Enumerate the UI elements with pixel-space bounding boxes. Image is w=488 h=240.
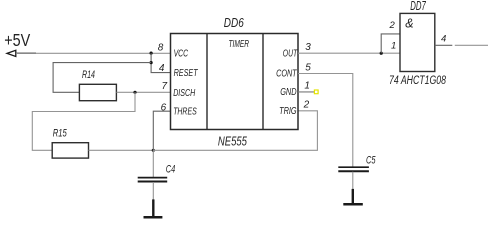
- svg-text:DD7: DD7: [410, 0, 426, 13]
- wire C4 bottom to ground: [152, 182, 154, 200]
- wire DISCH node down-left to R15 left: [32, 92, 135, 150]
- wire node down to C4: [152, 150, 154, 177]
- resistor R14: [79, 84, 116, 100]
- svg-text:TIMER: TIMER: [229, 38, 250, 50]
- svg-text:THRES: THRES: [173, 106, 197, 118]
- svg-text:74 AHCT1G08: 74 AHCT1G08: [389, 75, 446, 87]
- wire branch to DD7 pin 2: [381, 34, 400, 53]
- svg-text:1: 1: [391, 41, 396, 52]
- wire R14 to DISCH pin 7: [116, 91, 170, 93]
- wire R15 right to node: [89, 149, 154, 151]
- wire THRES pin 6 down to node: [153, 111, 170, 150]
- svg-text:3: 3: [305, 42, 311, 53]
- svg-text:8: 8: [158, 43, 164, 54]
- svg-text:R15: R15: [53, 128, 68, 140]
- svg-text:GND: GND: [280, 86, 297, 98]
- wire node to TRIG pin 2: [153, 111, 317, 151]
- wire GND pin 1 stub: [298, 91, 315, 93]
- svg-text:RESET: RESET: [174, 67, 199, 79]
- junction dot THRES/C4 node: [152, 149, 155, 152]
- svg-text:DD6: DD6: [224, 15, 245, 30]
- wire C5 bottom to ground: [352, 172, 354, 190]
- svg-text:NE555: NE555: [218, 134, 247, 148]
- svg-text:5: 5: [305, 63, 311, 74]
- gate DD7 body: [400, 13, 435, 71]
- svg-text:2: 2: [303, 99, 310, 110]
- svg-text:4: 4: [441, 34, 446, 45]
- wire loop from riser to R14 left: [53, 63, 151, 93]
- wire OUT pin 3 to DD7 pin 1: [298, 52, 400, 54]
- capacitor C5: [338, 167, 369, 171]
- svg-text:7: 7: [161, 81, 167, 92]
- ground symbol below C4: [144, 199, 163, 217]
- resistor R15: [52, 143, 88, 158]
- junction dot on VCC wire: [150, 52, 153, 55]
- junction dot on DISCH wire: [133, 91, 136, 94]
- capacitor C4: [138, 178, 168, 182]
- svg-text:VCC: VCC: [174, 48, 189, 60]
- junction dot on OUT wire: [380, 52, 383, 55]
- svg-text:&: &: [405, 17, 413, 31]
- svg-text:+5V: +5V: [4, 30, 30, 50]
- wire riser VCC to RESET: [151, 53, 170, 73]
- svg-text:4: 4: [159, 63, 165, 74]
- wire DD7 output pin 4: [435, 44, 488, 46]
- wire CONT pin 5 to C5: [298, 74, 353, 168]
- svg-text:2: 2: [389, 20, 396, 31]
- svg-text:1: 1: [304, 81, 310, 92]
- wire +5V to VCC pin 8: [16, 52, 171, 54]
- ground symbol below C5: [343, 189, 363, 204]
- svg-text:OUT: OUT: [283, 48, 298, 60]
- svg-text:DISCH: DISCH: [173, 87, 195, 99]
- svg-text:C4: C4: [166, 164, 176, 176]
- svg-text:CONT: CONT: [276, 68, 298, 80]
- IC DD6 body: [171, 34, 299, 130]
- unconnected pin marker (yellow): [314, 90, 318, 94]
- svg-text:6: 6: [161, 103, 167, 114]
- +5V arrow terminal: [7, 50, 36, 56]
- svg-text:R14: R14: [82, 69, 95, 81]
- svg-text:TRIG: TRIG: [279, 105, 297, 117]
- junction dot R14 loop on riser: [150, 61, 153, 64]
- svg-text:C5: C5: [366, 155, 376, 167]
